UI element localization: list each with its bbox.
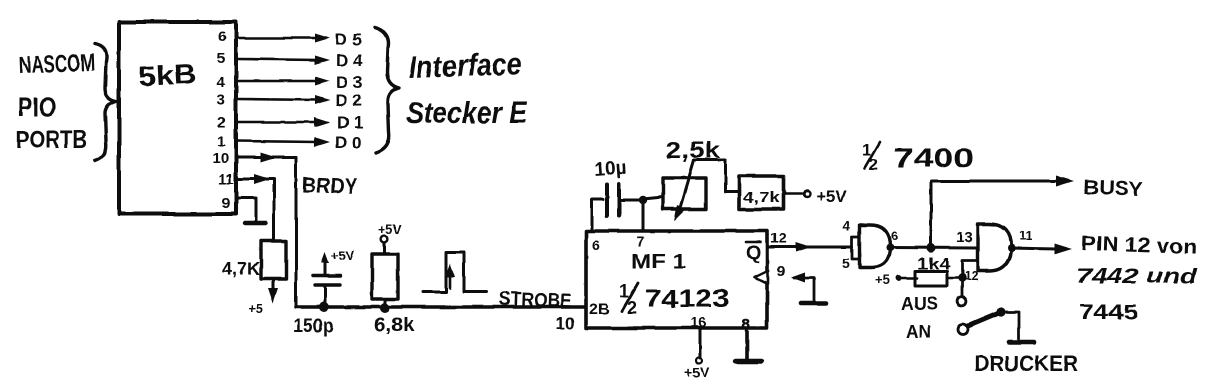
input marker pin 9 [755, 271, 769, 284]
resistor R1 4,7K [261, 241, 286, 279]
svg-text:+5: +5 [248, 301, 263, 316]
ground at pin 9 [237, 198, 266, 223]
svg-text:3: 3 [217, 92, 225, 109]
svg-text:11: 11 [218, 171, 234, 188]
svg-text:+5: +5 [875, 272, 890, 287]
svg-text:D 4: D 4 [336, 51, 363, 70]
svg-text:6: 6 [592, 237, 600, 253]
wire D2 [237, 96, 330, 105]
junction C1/STROBE [319, 302, 329, 312]
svg-text:1k4: 1k4 [917, 256, 950, 273]
wire node 12 to switch [961, 282, 964, 296]
svg-text:5: 5 [842, 255, 850, 271]
wire gate A output to gate B [890, 246, 978, 250]
svg-text:BUSY: BUSY [1083, 176, 1144, 201]
svg-text:PIN 12 von: PIN 12 von [1081, 232, 1198, 259]
capacitor C2 10u [607, 184, 643, 216]
label 1/2 74123 [619, 281, 729, 318]
svg-text:STROBE: STROBE [499, 288, 572, 312]
wire R4 to node 12 [949, 277, 962, 280]
svg-text:BRDY: BRDY [302, 172, 358, 199]
svg-text:D 3: D 3 [336, 73, 362, 92]
svg-text:7442 und: 7442 und [1076, 265, 1199, 288]
wire D1 [237, 117, 330, 127]
svg-text:4,7K: 4,7K [222, 259, 260, 279]
svg-text:12: 12 [770, 230, 787, 247]
wire junction to potentiometer [643, 197, 663, 199]
svg-text:2: 2 [627, 298, 637, 318]
svg-text:150p: 150p [293, 316, 334, 337]
svg-text:NASCOM: NASCOM [18, 49, 95, 79]
svg-text:10: 10 [212, 150, 229, 167]
capacitor C1 150p [313, 252, 340, 307]
svg-text:1: 1 [217, 133, 225, 150]
nand gate U3a [852, 225, 894, 268]
junction BUSY [926, 243, 935, 252]
svg-text:5: 5 [217, 50, 225, 67]
svg-text:+5V: +5V [816, 187, 847, 206]
svg-text:7: 7 [637, 233, 645, 249]
svg-text:11: 11 [1019, 228, 1033, 243]
junction node 12 [958, 274, 966, 282]
svg-text:Q: Q [746, 243, 761, 264]
svg-text:12: 12 [964, 268, 978, 283]
svg-text:4: 4 [217, 74, 226, 91]
svg-text:PIO: PIO [18, 92, 56, 122]
wire lever to ground [1001, 312, 1019, 339]
monoflop U2 MF1 1/2 74123 [586, 231, 767, 328]
power +5V above R2 [378, 222, 402, 242]
wire D5 [237, 34, 330, 43]
svg-text:5kB: 5kB [138, 58, 198, 92]
svg-text:4: 4 [842, 218, 850, 234]
ground at pin 8 [736, 331, 761, 362]
svg-text:+5V: +5V [331, 248, 355, 263]
node PIN 12 von 7442 und 7445 [1076, 232, 1199, 324]
svg-text:D 2: D 2 [335, 91, 361, 110]
switch S1 lever [968, 307, 1006, 326]
wire D4 [237, 56, 330, 65]
svg-text:D 5: D 5 [335, 30, 361, 49]
svg-text:AUS: AUS [901, 294, 938, 314]
svg-text:DRUCKER: DRUCKER [974, 351, 1078, 376]
wire pin10 to BRDY vertical [237, 152, 296, 307]
wire pin16 to +5V [699, 328, 702, 358]
wire pot wiper to R3 [694, 160, 739, 192]
wire Q-bar pin12 to gate A [767, 242, 852, 252]
wire STROBE net [296, 305, 585, 309]
svg-text:2: 2 [869, 155, 878, 174]
nand gate U3b [978, 224, 1011, 271]
resistor R2 6,8k [372, 254, 398, 299]
svg-text:6,8k: 6,8k [374, 315, 414, 336]
svg-text:4,7k: 4,7k [743, 189, 781, 206]
resistor R4 1k4 [915, 271, 947, 286]
svg-text:Stecker E: Stecker E [406, 95, 528, 130]
svg-text:7445: 7445 [1079, 301, 1138, 324]
svg-text:6: 6 [218, 28, 226, 45]
wire R2 to +5V [383, 243, 386, 254]
svg-text:9: 9 [222, 195, 230, 212]
svg-text:AN: AN [906, 322, 931, 342]
svg-text:2: 2 [217, 114, 225, 131]
svg-text:2B: 2B [589, 301, 609, 318]
wire R2 to STROBE [384, 299, 387, 307]
brace left of PIO box [95, 44, 116, 161]
wire pin7 [642, 200, 645, 231]
pin Q-bar label [746, 242, 761, 264]
wire gate B output [1010, 244, 1072, 255]
wire D0 [237, 137, 330, 147]
wire R1 to +5V [268, 279, 278, 303]
wire R3 to +5V [784, 191, 810, 197]
wire node 12 to gate B input [962, 261, 978, 279]
svg-text:7400: 7400 [893, 143, 974, 173]
junction C2/pin7 [639, 196, 647, 204]
switch S1 contact AUS [958, 297, 967, 306]
potentiometer P1 2,5K [663, 160, 706, 221]
svg-text:MF 1: MF 1 [631, 251, 686, 273]
svg-text:+5V: +5V [684, 364, 710, 378]
svg-text:6: 6 [891, 228, 898, 243]
svg-text:PORTB: PORTB [16, 126, 87, 154]
power +5 left of R4 [875, 272, 917, 287]
switch S1 contact AN [958, 324, 968, 334]
svg-text:74123: 74123 [645, 285, 729, 313]
wire pin6 to C2 [592, 199, 603, 231]
label NASCOM PIO PORTB [16, 49, 95, 154]
resistor R3 4,7k [739, 176, 784, 209]
svg-text:13: 13 [956, 229, 973, 246]
ground at pin 9 MF1 [791, 273, 826, 304]
ground at switch [1009, 340, 1034, 345]
wire BUSY [931, 176, 1074, 248]
label 1/2 7400 [862, 140, 974, 174]
brace right of data bus [375, 27, 399, 153]
svg-text:+5V: +5V [378, 222, 402, 237]
junction R2/STROBE [380, 303, 390, 313]
svg-text:D 1: D 1 [337, 113, 363, 132]
svg-text:D 0: D 0 [335, 133, 361, 152]
PIO port box U1 (5kB) [119, 22, 236, 214]
svg-text:Interface: Interface [408, 46, 522, 85]
svg-text:9: 9 [777, 263, 785, 280]
wire pin11 to resistor R1 [237, 174, 274, 241]
wire D3 [237, 77, 330, 86]
svg-text:10: 10 [556, 314, 575, 333]
label Interface Stecker E [406, 46, 528, 130]
svg-text:10µ: 10µ [594, 158, 627, 181]
pulse waveform symbol [423, 252, 487, 292]
